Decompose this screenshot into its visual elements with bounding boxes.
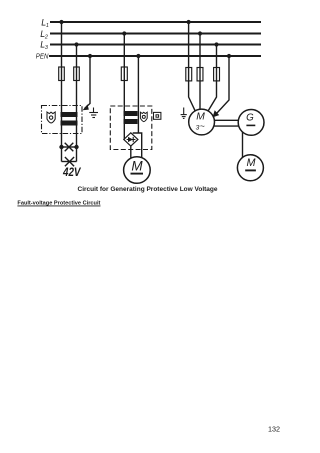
wire: M2 to G1 (lower) [214,125,238,127]
rectifier V1 (diamond) [124,133,138,146]
node on PEN [88,54,92,58]
motor M3 (DC) [237,155,263,181]
svg-text:Circuit for Generating Protect: Circuit for Generating Protective Low Vo… [78,186,219,193]
node on L1 [59,20,63,24]
node on L3 [74,42,78,46]
fuse F1 [59,67,65,81]
svg-text:M: M [247,157,256,169]
fuse F5 [197,68,203,81]
node on L2 [122,31,126,35]
diode inside V1 [127,137,136,142]
svg-text:42V: 42V [62,165,81,179]
svg-text:M: M [131,158,143,173]
svg-text:PEN: PEN [36,52,49,61]
wire: L2 drop to motor M2 [199,34,201,110]
transformer T2 winding (secondary bar) [124,119,138,124]
generator G1 [238,110,264,136]
motor M1 (DC) [124,157,151,184]
bus L3 [50,44,261,46]
wire lamp branch right [76,147,78,162]
svg-text:132: 132 [268,425,280,434]
svg-text:G: G [246,112,254,123]
arrowhead at motor M2 [213,110,220,117]
wire: L3 drop to motor M2 [208,45,216,111]
node on L2 (right) [198,31,202,35]
wire: rectifier to motor M1 [130,146,132,158]
safety-transformer shield symbol (in K1) [47,112,55,123]
bus L2 [50,33,261,35]
node on L1 (right) [187,20,191,24]
wire: L2 drop to transformer T2 [123,34,125,140]
lamp row wire [62,146,77,148]
svg-text:~: ~ [200,121,205,131]
safety-transformer shield symbol (in K2) [140,112,147,121]
transformer T1 winding (secondary bar) [61,121,78,126]
class II insulation symbol [154,112,161,119]
wire: M2 to G1 (upper) [215,119,239,121]
node on PEN (right) [227,54,231,58]
wire: PEN drop to transformer T2 [137,56,139,133]
transformer T2 winding (primary bar) [124,111,138,116]
wire: L3 drop to transformer T1 [76,45,78,148]
fuse F4 [186,68,192,81]
bus PEN [49,55,261,57]
wire: secondary jog to bypass [133,133,142,158]
node on PEN (middle) [136,54,140,58]
lamp E1 [65,143,74,152]
fuse F3 [121,67,127,81]
node (lamp left) [59,145,63,149]
wire: L1 drop to transformer T1 [61,22,63,147]
fuse F2 [74,67,80,81]
node on L3 (right) [214,42,218,46]
motor M2 (3-phase) [189,109,215,135]
svg-text:L3: L3 [40,39,48,51]
ground (motor M2 frame) [181,108,187,119]
wire: G1 to M3 [242,132,244,158]
transformer T1 winding (primary bar) [61,112,78,117]
svg-text:L1: L1 [41,18,49,30]
bus L1 [50,21,261,23]
bottom lamp wire [62,161,77,163]
lamp E2 [65,157,74,166]
fuse F6 [214,68,220,81]
ground (left block) [89,108,98,118]
wire: L1 drop to motor M2 [189,22,195,111]
wire: PEN drop to motor M2 [217,56,230,114]
node (lamp right) [74,145,78,149]
enclosure box K1 (dash-dot) [42,106,83,134]
wire: PEN drop at left block [85,56,91,109]
enclosure box K2 (dashed) [110,106,152,150]
wire lamp branch left [61,147,63,162]
arrowhead into box K1 [83,104,89,110]
